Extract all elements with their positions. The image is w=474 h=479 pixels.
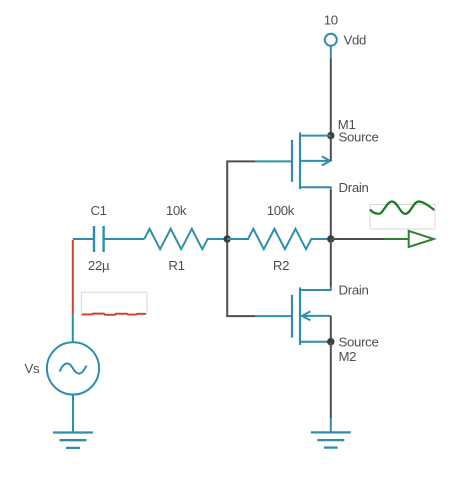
wire Vs to ground: [72, 395, 74, 433]
scope thumbnail output (green): [370, 202, 435, 229]
node gate junction: [224, 235, 231, 242]
transistor M2 (NMOS): [292, 287, 331, 346]
wire input corner to C1: [73, 238, 94, 240]
svg-text:10k: 10k: [166, 203, 187, 218]
svg-text:Drain: Drain: [339, 282, 369, 297]
svg-text:22µ: 22µ: [88, 258, 110, 273]
svg-text:100k: 100k: [267, 203, 295, 218]
wire input probe segment (red): [72, 240, 74, 314]
wire output node to M2 drain: [330, 239, 332, 287]
output flag arrow: [385, 231, 434, 247]
svg-text:R1: R1: [168, 258, 184, 273]
terminal Vdd: [325, 34, 337, 59]
wire to Vs: [72, 314, 74, 342]
resistor R2: [227, 229, 331, 249]
svg-text:C1: C1: [90, 203, 106, 218]
svg-text:10: 10: [324, 13, 338, 28]
capacitor C1: [94, 226, 144, 252]
svg-text:R2: R2: [273, 258, 289, 273]
wire M2 source to ground: [330, 342, 332, 418]
scope thumbnail input (red): [81, 292, 146, 315]
ground (left): [53, 433, 93, 448]
wire M2 body tie to source: [330, 316, 332, 342]
wire Vdd to M1 source: [330, 59, 332, 136]
svg-text:Source: Source: [339, 335, 379, 350]
resistor R1: [144, 229, 227, 249]
wire gate bus: [227, 161, 255, 316]
node M1 source junction: [327, 132, 334, 139]
svg-text:Source: Source: [339, 129, 379, 144]
voltage source Vs: [47, 342, 99, 394]
ground (right): [311, 418, 351, 448]
wire M2 gate lead: [255, 315, 292, 317]
svg-text:M2: M2: [339, 349, 357, 364]
node output junction: [327, 235, 334, 242]
svg-text:Drain: Drain: [339, 180, 369, 195]
svg-text:Vs: Vs: [25, 361, 40, 376]
wire M1 drain to output node: [330, 190, 332, 239]
wire M1 body tie to source: [330, 136, 332, 161]
wire output node to flag: [331, 238, 385, 240]
transistor M1 (PMOS): [292, 132, 331, 191]
node M2 source junction: [327, 338, 334, 345]
svg-text:Vdd: Vdd: [344, 33, 367, 48]
wire M1 gate lead: [255, 160, 292, 162]
